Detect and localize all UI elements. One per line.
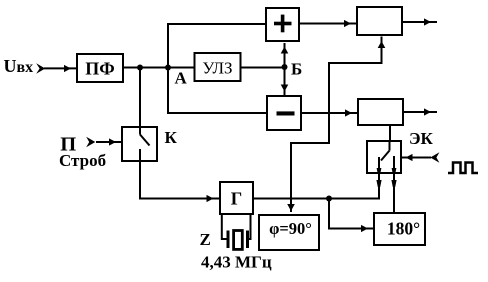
detector box 1	[357, 7, 402, 35]
svg-text:Строб: Строб	[59, 151, 106, 170]
ЭК left output arrowheads	[377, 168, 382, 174]
bandpass filter ПФ	[77, 54, 123, 82]
wire К to Г	[140, 162, 219, 199]
arrowhead into Г	[207, 195, 214, 202]
output arrowhead 2	[424, 108, 431, 115]
svg-text:ПФ: ПФ	[85, 59, 114, 79]
wire УЛЗ to node Б	[242, 67, 285, 69]
wire ПФ to УЛЗ	[124, 67, 194, 69]
commutator ЭК box	[367, 141, 401, 173]
arrowhead Б down into subtractor	[281, 85, 289, 92]
ЭК right output down to 180	[393, 174, 395, 212]
crystal left plate	[227, 231, 230, 249]
phase shifter 180 box	[374, 213, 425, 245]
junction dot node Б	[282, 64, 288, 70]
svg-text:Г: Г	[231, 189, 242, 209]
svg-text:УЛЗ: УЛЗ	[202, 59, 232, 78]
phase shifter 90 box	[259, 215, 319, 250]
switch К box	[122, 127, 157, 161]
arrowhead into ПФ	[64, 65, 71, 72]
wire subtractor to detector 2	[302, 112, 357, 114]
wire detector1 bottom to phase shifter 90	[291, 37, 382, 213]
wire junction to 180	[329, 199, 373, 229]
svg-text:4,43 МГц: 4,43 МГц	[201, 253, 272, 272]
wire node Б down to subtractor	[284, 68, 286, 96]
arrowhead down into φ=90	[287, 204, 295, 211]
output arrowhead 1	[424, 18, 431, 25]
crystal right plate	[246, 231, 249, 249]
output wire 1	[403, 21, 437, 23]
svg-text:Б: Б	[291, 60, 302, 79]
wire junction 1 down to К	[139, 68, 141, 127]
plus sign	[274, 22, 292, 26]
arrowhead into detector 2	[345, 109, 352, 116]
wire строб to К	[96, 141, 121, 143]
svg-text:Uвх: Uвх	[4, 56, 34, 76]
generator Г box	[220, 182, 253, 214]
svg-text:А: А	[175, 69, 188, 88]
arrowhead into detector 1	[344, 20, 351, 27]
svg-text:φ=90°: φ=90°	[269, 219, 312, 238]
wire Г to ЭК left output	[254, 198, 380, 200]
wire detector2 to ЭК	[389, 126, 391, 140]
wire node A up to adder	[168, 24, 265, 68]
svg-text:К: К	[165, 128, 178, 147]
subtractor box	[267, 96, 301, 130]
junction dot node A	[165, 65, 171, 71]
ЭК right output arrowheads	[392, 168, 397, 174]
arrowhead into К	[109, 138, 116, 145]
crystal body	[234, 231, 243, 250]
crystal Z leads	[222, 215, 251, 239]
ЭК left output down	[378, 174, 380, 199]
switch К contacts	[140, 126, 150, 162]
arrowhead Б up into adder	[281, 47, 289, 54]
arrowhead up into detector 1 bottom	[378, 41, 386, 48]
arrowhead into 180	[361, 225, 368, 232]
ЭК control input wire	[402, 157, 431, 159]
ЭК switch contacts	[379, 140, 394, 174]
adder box	[266, 8, 299, 41]
strobe connector (crow's foot)	[86, 137, 95, 147]
pulse train symbol	[448, 163, 478, 174]
svg-text:180°: 180°	[387, 219, 420, 239]
ЭК control connector (crow's foot pointing left)	[430, 152, 439, 162]
arrowhead into ЭК right side	[406, 154, 413, 161]
wire input to ПФ	[44, 67, 77, 69]
svg-text:Z: Z	[200, 230, 211, 249]
minus sign	[277, 111, 295, 115]
junction dot at Г output	[326, 196, 332, 202]
svg-text:ЭК: ЭК	[409, 129, 434, 148]
wire node Б up to adder	[284, 43, 286, 68]
wire adder to detector 1	[300, 23, 356, 25]
detector box 2	[358, 99, 403, 125]
input connector Uвх (crow's foot)	[36, 63, 45, 74]
delay line УЛЗ	[195, 53, 241, 81]
junction dot 1	[137, 65, 143, 71]
output wire 2	[404, 111, 437, 113]
wire node A down to subtractor	[168, 68, 266, 114]
